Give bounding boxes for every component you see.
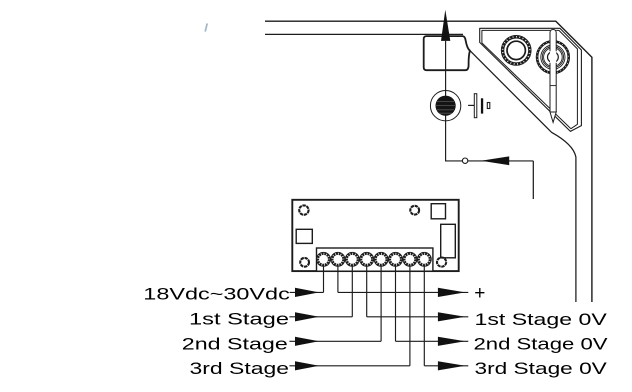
terminal 8 [417,252,431,266]
svg-text:1st Stage 0V: 1st Stage 0V [475,310,607,329]
row 4 left arrowhead [295,361,319,370]
terminal block outline [317,248,433,271]
wire T4 down [366,266,368,317]
PCB hole top-left [299,205,308,214]
wire T1 down [323,266,325,292]
row 2 right arrowhead [438,312,465,321]
terminal 6 [389,252,403,266]
svg-text:2nd Stage 0V: 2nd Stage 0V [474,335,608,354]
svg-text:3rd Stage 0V: 3rd Stage 0V [475,359,607,378]
PCB hole bottom-left [300,258,309,267]
terminal 4 [360,252,374,266]
row 3 left lead [289,340,381,342]
PCB component rect right [441,224,456,257]
row 2 left lead [289,316,352,318]
row 2 left arrowhead [295,312,319,321]
row 4 right arrowhead [438,361,465,370]
wire T2 down [337,266,339,292]
terminal 7 [403,252,417,266]
row 4 left lead [289,365,410,367]
tamper switch symbol [468,94,490,118]
row 1 right arrowhead [438,288,465,297]
wire node (open junction circle) [462,158,467,163]
terminal 2 [331,252,345,266]
annotation mark (blue cursor "1") [205,23,207,31]
PCB board outline [292,200,458,271]
svg-text:+: + [474,283,485,304]
speaker bracket panel outer outline [480,28,582,131]
terminal 5 [374,252,388,266]
svg-text:2nd Stage: 2nd Stage [182,334,288,353]
captive screw boss (right rings in panel) [536,40,569,73]
row 4 right lead [424,365,468,367]
wire T7 down [409,266,411,366]
svg-text:1st Stage: 1st Stage [189,310,289,329]
mounting hole (left ring in panel) [501,36,531,66]
row 1 left lead [290,291,324,293]
wire T8 down [423,266,425,366]
captive screw pin [550,30,556,123]
PCB component square left [296,229,312,243]
arrow left on node wire [481,156,509,165]
row 3 left arrowhead [295,337,319,346]
PCB component square top-right [431,204,445,219]
arrow up (to external wiring) [441,10,450,41]
PCB hole top-right [410,206,419,215]
row 3 right lead [396,340,469,342]
PCB hole bottom-right [437,258,446,267]
enclosure inner wall (diagonal + fillet + right vertical) [470,51,576,302]
LED indicator [430,91,460,121]
row 3 right arrowhead [438,337,465,346]
terminal 3 [345,252,359,266]
wire stub from node corner down (dangling) [532,161,534,199]
wire T3 down [351,266,353,317]
svg-text:3rd Stage: 3rd Stage [190,359,290,378]
enclosure outer wall (top edge, corner cut, right edge) [265,21,592,302]
row 2 right lead [367,316,469,318]
row 1 left arrowhead [295,288,319,297]
wire T6 down [395,266,397,341]
vertical wire through box and LED [446,41,534,161]
enclosure inner wall top line [265,33,463,35]
terminal 1 [317,252,331,266]
speaker bracket panel inner outline [482,30,578,128]
svg-text:18Vdc~30Vdc: 18Vdc~30Vdc [143,285,290,304]
wire T5 down [380,266,382,341]
connector box on enclosure wall [424,36,470,70]
row 1 right lead [338,291,468,293]
